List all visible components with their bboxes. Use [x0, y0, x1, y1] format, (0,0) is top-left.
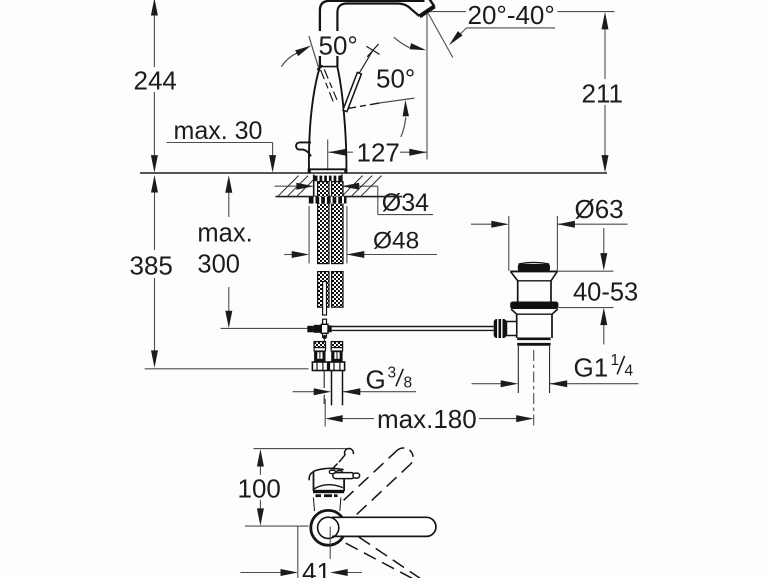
svg-text:max.180: max.180: [377, 404, 477, 434]
svg-text:244: 244: [134, 66, 177, 96]
svg-text:20°-40°: 20°-40°: [468, 0, 555, 30]
svg-text:G1: G1: [574, 353, 609, 383]
svg-text:8: 8: [404, 375, 413, 392]
svg-text:300: 300: [197, 251, 240, 279]
svg-text:50°: 50°: [376, 64, 415, 94]
svg-text:40-53: 40-53: [573, 279, 638, 307]
svg-text:Ø63: Ø63: [575, 194, 624, 224]
svg-text:41: 41: [302, 557, 331, 578]
svg-text:1: 1: [611, 352, 620, 369]
svg-text:4: 4: [625, 363, 634, 380]
svg-text:127: 127: [357, 138, 400, 168]
svg-text:Ø48: Ø48: [373, 228, 419, 255]
svg-text:Ø34: Ø34: [382, 189, 429, 217]
svg-text:385: 385: [130, 251, 173, 281]
svg-text:100: 100: [238, 474, 281, 504]
svg-text:50°: 50°: [319, 31, 358, 61]
svg-text:G: G: [366, 365, 386, 395]
svg-text:max.: max.: [197, 220, 252, 248]
svg-text:3: 3: [388, 365, 397, 382]
svg-text:211: 211: [582, 79, 623, 109]
svg-text:max. 30: max. 30: [174, 117, 263, 145]
